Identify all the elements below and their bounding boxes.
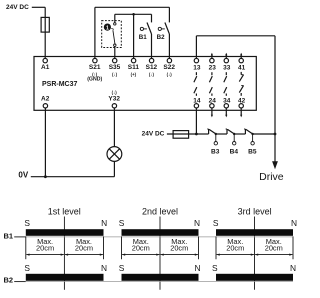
svg-text:S: S [119,263,125,273]
0V rail [31,176,115,178]
position switch B4 [226,129,228,134]
arrow stub below 42 [240,108,242,115]
svg-text:S21: S21 [89,64,101,71]
magnet bar B1 level 1 [26,229,104,236]
NC contact 41-42 [240,72,242,75]
svg-text:B1: B1 [4,232,14,241]
emergency stop dashed enclosure [102,21,122,48]
terminal S12 [149,58,153,62]
sensor switch B1 [140,27,143,30]
magnet bar B2 level 3 [216,274,293,281]
terminal A1 [43,58,47,62]
relay module PSR-MC37 box [34,57,256,111]
svg-text:S: S [24,218,30,228]
svg-text:A1: A1 [41,64,50,71]
svg-text:B4: B4 [230,149,239,156]
svg-text:B2: B2 [4,276,14,285]
wire: lamp to 0V rail [113,161,115,176]
wire: rail to S11 [133,14,135,58]
svg-text:S: S [213,218,219,228]
svg-text:Drive: Drive [259,171,284,183]
drive arrowhead [272,161,278,169]
terminal 13 [194,58,198,62]
svg-text:24V DC: 24V DC [6,4,29,11]
terminal 23 [210,58,214,62]
svg-text:Y32: Y32 [108,96,120,103]
terminal S22 [167,58,171,62]
dimension arrows level 3 [217,254,254,256]
supply rail (outer, S21/B2) [95,6,169,8]
magnet bar B2 level 2 [122,274,199,281]
NO contact 13-14 [195,72,197,75]
e-stop top contact [114,23,116,25]
svg-text:S: S [119,218,125,228]
e-stop blade [113,30,115,44]
wire: e-stop to S35 [114,46,116,58]
svg-text:N: N [194,218,200,228]
NO contact 33-34 [225,72,227,75]
svg-text:23: 23 [209,64,217,71]
fuse F2 [173,131,189,139]
svg-text:S35: S35 [109,64,121,71]
svg-text:B5: B5 [248,149,257,156]
svg-text:1: 1 [106,25,109,31]
NO contact 23-24 [211,72,213,75]
svg-text:S: S [24,263,30,273]
svg-text:S22: S22 [163,64,175,71]
junction: S11 / inner rail [132,13,135,16]
svg-text:S11: S11 [128,64,140,71]
wire: rail to S21 [94,7,96,58]
arrow stub above 41 [240,54,242,59]
magnet bar B1 level 3 [216,229,293,236]
terminal A2 [43,104,47,108]
dimension arrows level 1 [26,254,63,256]
arrow stub above 23 [211,54,213,59]
arrow stub below 34 [225,108,227,115]
wire: 14 down to feedback chain [195,108,197,134]
svg-text:24V DC: 24V DC [142,131,165,138]
svg-text:20cm: 20cm [226,243,244,252]
svg-text:0V: 0V [18,171,28,180]
svg-text:N: N [101,218,107,228]
svg-text:A2: A2 [41,95,50,102]
junction: A2 / 0V [44,175,47,178]
wire: rail to terminal 13 [195,36,197,59]
svg-text:1st level: 1st level [48,207,81,217]
position switch B5 [244,129,246,134]
chain segment: junction to B3 [196,133,208,135]
sensor rail (inner, S11) [115,13,152,15]
svg-text:(+): (+) [131,72,137,77]
svg-text:42: 42 [238,97,246,104]
terminal 33 [224,58,228,62]
divider level 1 [63,217,65,290]
track line B1 [26,236,293,238]
position switch B3 [208,129,210,134]
junction: fuse / 14 / chain [195,133,198,136]
terminal 34 [224,104,228,108]
chain segment: B5 to drive drop [253,133,275,135]
svg-text:34: 34 [223,97,231,104]
arrow stub above 33 [225,54,227,59]
svg-text:20cm: 20cm [265,243,283,252]
terminal 42 [239,104,243,108]
svg-text:(↓): (↓) [112,72,118,77]
svg-text:41: 41 [238,64,246,71]
wire: Y32 down to lamp [113,108,115,147]
svg-text:2nd level: 2nd level [142,207,178,217]
magnet bar B1 level 2 [122,229,199,236]
svg-text:20cm: 20cm [132,243,150,252]
track line B2 [26,281,293,283]
svg-text:(↓): (↓) [149,72,155,77]
wire: outer rail to B2 contact [168,7,170,22]
footnote marker 1 (e-stop button) [104,24,111,31]
svg-text:(↓): (↓) [167,72,173,77]
svg-text:B3: B3 [211,149,220,156]
output rail (13 to drive) [196,35,275,37]
wire: inner rail to B1 contact [151,14,153,22]
svg-text:B1: B1 [139,34,147,41]
terminal 41 [239,58,243,62]
dimension extension lines [25,236,27,259]
svg-text:20cm: 20cm [36,243,54,252]
indicator lamp [107,147,122,162]
terminal 24 [210,104,214,108]
svg-text:13: 13 [193,64,201,71]
terminal S21 [93,58,97,62]
svg-text:N: N [194,263,200,273]
dimension arrows level 2 [122,254,159,256]
terminal S11 [131,58,135,62]
svg-text:14: 14 [193,97,201,104]
wire: rail down to drive [274,36,276,162]
svg-text:(GND): (GND) [87,76,102,82]
fuse F1 [41,17,49,32]
terminal Y32 [112,104,116,108]
wire: A2 down to 0V rail [44,108,46,177]
terminal 14 [194,104,198,108]
divider level 3 [254,217,256,290]
wire: B2 to S22 [168,34,170,59]
svg-text:20cm: 20cm [75,243,93,252]
divider level 2 [159,217,161,290]
svg-text:20cm: 20cm [170,243,188,252]
svg-text:33: 33 [223,64,231,71]
svg-text:PSR-MC37: PSR-MC37 [42,81,78,88]
svg-text:(↓): (↓) [112,90,118,95]
svg-text:N: N [101,263,107,273]
svg-text:N: N [291,218,297,228]
magnet bar B2 level 1 [26,274,104,281]
sensor switch B2 [158,27,161,30]
wire: supply through fuse F2 to junction [167,133,197,135]
junction: chain / drive drop [274,133,277,136]
svg-text:24: 24 [209,97,217,104]
chain segment: B3 to B4 [216,133,227,135]
chain segment: B4 to B5 [234,133,245,135]
svg-text:N: N [290,263,296,273]
wire: inner rail into e-stop [114,14,116,22]
svg-text:S: S [212,263,218,273]
e-stop bottom contact [114,44,116,46]
arrow stub below 24 [211,108,213,115]
wire: supply to fuse F1 [32,6,45,8]
wire: B1 to S12 [151,34,153,59]
svg-text:S12: S12 [146,64,158,71]
svg-text:3rd level: 3rd level [238,207,272,217]
terminal S35 [113,58,117,62]
svg-text:B2: B2 [157,34,165,41]
